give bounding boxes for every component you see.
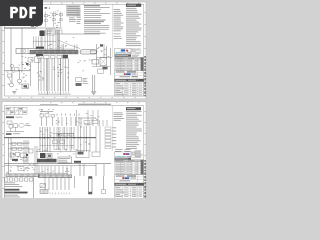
center label scatter 2 — [71, 146, 73, 149]
title row 1 text — [116, 71, 125, 72]
title row 3 — [115, 77, 144, 79]
contactor dark blob 1 — [40, 153, 46, 158]
page 2 title block — [115, 175, 144, 198]
page 2 column divider — [112, 106, 114, 151]
fuse chain 1 — [45, 12, 47, 28]
parts table dark right band — [141, 57, 144, 70]
capsule end box — [91, 50, 97, 53]
dark title band — [115, 79, 144, 82]
page 2 legend list — [126, 110, 142, 113]
bottom-left terminal ticks — [6, 174, 39, 177]
page 2 parts table header — [115, 160, 144, 162]
wire label scatter — [60, 69, 62, 72]
fuse row under strip — [38, 55, 43, 58]
wire label column left — [39, 79, 40, 82]
long wires lower — [4, 163, 111, 165]
page 2 sheet — [2, 102, 146, 199]
title lower rows — [115, 82, 144, 84]
page 2 legend header — [126, 107, 141, 110]
upper right stub wires — [99, 120, 101, 126]
title block vertical dividers — [122, 83, 124, 96]
left dark dot — [26, 63, 28, 65]
wires to bottom strip — [38, 166, 40, 175]
mid-left dark dot — [26, 154, 28, 156]
top small dark labels — [31, 25, 34, 26]
mid cluster labels 2 — [84, 60, 86, 63]
logo box — [115, 49, 132, 54]
mid label scatter — [65, 45, 67, 48]
upper component row — [40, 114, 44, 117]
legend column 2 header — [126, 4, 141, 7]
dark bar lower — [36, 54, 43, 56]
main bus page 2 — [4, 137, 96, 139]
aux box — [56, 30, 62, 34]
notes block — [84, 5, 100, 6]
wires down from long wire — [79, 164, 81, 176]
page 2 dark info band — [115, 158, 132, 160]
horizontal wire run — [62, 33, 100, 35]
dark mark small — [103, 67, 108, 70]
dark terminal band — [37, 159, 57, 163]
cluster wiring right — [96, 44, 98, 67]
mid-left wire pair — [34, 146, 36, 174]
logo cyan rule — [116, 51, 127, 54]
switchboard box row — [16, 49, 36, 54]
page 2 legend list lower — [135, 150, 142, 153]
starter box B with cross — [100, 58, 107, 66]
PDF badge label — [10, 7, 36, 18]
bottom wires down — [44, 178, 46, 190]
inner vertical wires — [33, 37, 35, 49]
edge wires bottom — [33, 177, 35, 198]
logo red mark — [126, 50, 128, 52]
branch row 2 — [9, 148, 25, 150]
branch diagonal wire — [58, 40, 80, 49]
center wire row — [36, 151, 76, 153]
short wire pairs — [61, 44, 63, 50]
center labels upper — [50, 134, 52, 137]
distribution wire — [78, 117, 96, 119]
page 2 frame ticks — [50, 102, 51, 105]
page 2 logo area text — [115, 148, 123, 151]
title rule — [115, 72, 144, 74]
page 2 title lower rows — [115, 186, 144, 188]
page 2 logo violet mark — [126, 153, 130, 155]
page 2 note block — [114, 112, 123, 115]
small box left — [8, 74, 12, 77]
left label scatter — [19, 83, 21, 86]
logo box side grid — [131, 49, 141, 54]
bottom hatched device 1 — [40, 184, 46, 188]
center tie wires — [40, 145, 74, 147]
center cluster box — [58, 157, 72, 163]
right edge strip marks — [144, 56, 145, 58]
sensor block — [76, 78, 82, 82]
dark bar upper — [36, 47, 44, 49]
left horizontal wire — [4, 70, 30, 72]
parts table grid — [115, 59, 144, 70]
instrument box — [15, 68, 20, 72]
page 2 company logo blue — [125, 177, 130, 179]
bottom hatched device 2 — [40, 190, 48, 194]
upper terminal ticks — [56, 114, 58, 116]
right mid wires page2 — [77, 126, 79, 152]
notes dense paragraph — [84, 19, 106, 22]
header label T — [45, 7, 48, 8]
ground symbol mid — [91, 91, 96, 93]
longer drop wires — [47, 58, 49, 95]
page 2 company logo red — [122, 177, 124, 179]
left lower boxes — [18, 167, 24, 171]
PDF badge — [0, 0, 43, 26]
upper label marks — [41, 108, 43, 111]
right cluster labels — [95, 52, 97, 55]
page 2 logo cyan rule — [115, 155, 126, 158]
pump circle 2 — [18, 79, 22, 83]
page 2 logo red mark — [123, 153, 125, 155]
page 2 header strip — [78, 104, 111, 105]
left lower scatter — [25, 168, 27, 171]
bottom-left dark bars — [5, 189, 20, 191]
meter box — [46, 29, 55, 35]
logo blue mark — [121, 49, 125, 51]
title row 2 — [115, 75, 144, 77]
wires to bottom terminals — [38, 58, 40, 91]
grey reference table — [67, 6, 81, 17]
page 1 sheet — [2, 2, 146, 99]
page 2 parts table text — [115, 161, 125, 164]
page 2 parts table grid — [115, 162, 144, 175]
dark wire segment — [74, 161, 81, 163]
instrument circle 1 — [10, 64, 13, 67]
company logo red mark — [124, 73, 126, 75]
small box below revision — [7, 121, 12, 124]
page 2 drawing frame — [4, 105, 144, 107]
small ref block — [69, 17, 74, 20]
pump circle 1 — [10, 83, 14, 87]
bus risers — [8, 138, 10, 174]
transformer block dark — [40, 31, 45, 37]
upper wires — [41, 117, 43, 126]
mid-left verticals — [23, 140, 25, 164]
branch row 1 — [9, 143, 25, 145]
bottom terminal labels — [38, 92, 40, 94]
page 2 parts table dark band — [141, 160, 144, 175]
dark mark upper — [100, 44, 103, 46]
contactor dark blob 2 — [47, 154, 52, 159]
left riser wires — [10, 28, 12, 71]
left device boxes top — [28, 58, 33, 63]
terminal strip X1 — [30, 50, 78, 54]
bottom terminal ticks small — [49, 193, 51, 195]
revision dark bar — [6, 116, 14, 118]
ground symbol left — [12, 91, 16, 93]
page 2 logo box — [115, 152, 132, 158]
left mid cluster — [10, 153, 14, 157]
title block frame — [115, 71, 144, 96]
center small boxes upper — [53, 140, 58, 144]
left dark marks — [12, 159, 18, 161]
page 1 drawing frame — [43, 3, 144, 5]
left module wire — [6, 131, 24, 133]
mid-left box 1 — [29, 149, 33, 153]
page 2 logo side grid — [131, 152, 141, 158]
notes block lower — [84, 24, 109, 27]
legend column 2 — [126, 7, 136, 10]
numbered list column — [77, 8, 81, 11]
bottom-left component row — [5, 178, 8, 181]
single drop wire — [103, 176, 105, 190]
lower label scatter — [51, 172, 53, 175]
page 2 dark title band — [115, 183, 144, 186]
tall cable duct — [89, 177, 93, 195]
wire pair to ground — [92, 75, 94, 92]
bottom terminal strip center — [39, 175, 72, 178]
strip labels — [38, 48, 75, 51]
page 2 title row text — [116, 175, 125, 176]
cable capsule — [80, 50, 97, 54]
bottom-left text block — [5, 182, 15, 185]
bus junction dots — [40, 137, 41, 138]
mid-left box 2 — [23, 157, 27, 161]
wire drops to strip — [41, 30, 43, 50]
starter box A — [92, 60, 99, 65]
right box row mid — [76, 151, 89, 158]
inline device row — [57, 133, 62, 136]
right mid scatter 2 — [86, 112, 88, 115]
left cluster wires — [30, 63, 32, 87]
mid-left scatter — [28, 167, 30, 170]
dark info band — [115, 54, 132, 56]
dark device box — [63, 55, 69, 59]
main bus wire — [4, 27, 36, 29]
left dark dash — [6, 133, 12, 135]
parts table row text — [115, 59, 125, 62]
revision table hatched cells — [6, 107, 23, 114]
company logo blue mark — [126, 73, 131, 75]
left module group — [9, 125, 13, 129]
symbol labels — [58, 21, 60, 24]
right mid scatter — [85, 141, 87, 144]
vertical wire bundle — [57, 30, 59, 50]
parts table header — [115, 57, 144, 59]
center mid wires — [53, 127, 55, 150]
page 2 title rows — [115, 176, 144, 178]
fuse chain 2 — [53, 12, 55, 28]
frame border ticks — [50, 2, 51, 5]
tie wire — [33, 40, 56, 42]
valve box with dark fill — [22, 84, 29, 89]
upper right boxes — [84, 121, 90, 124]
revision table — [6, 107, 27, 114]
fuse chain 3 — [60, 12, 62, 28]
device box C — [98, 69, 104, 73]
connector column — [105, 127, 111, 129]
center wires bundle — [39, 127, 41, 152]
schematic column divider — [112, 4, 114, 57]
legend column 1 — [114, 8, 121, 11]
page 2 right edge strip — [144, 160, 145, 162]
page 2 title vertical dividers — [122, 187, 124, 198]
